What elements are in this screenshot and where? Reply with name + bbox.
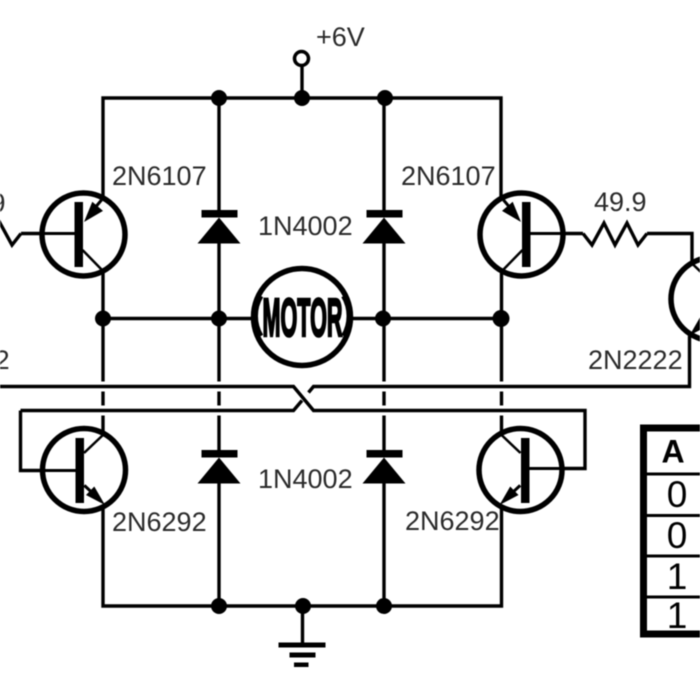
svg-text:1: 1 xyxy=(667,595,688,636)
wire left diode column between rails xyxy=(217,319,220,452)
wire bottom rail with side risers xyxy=(103,507,502,606)
wire Q1 collector drop xyxy=(101,271,104,319)
diode D3 1N4002 bottom-left xyxy=(198,450,241,606)
wire left resistor to Q1 base xyxy=(21,232,44,235)
transistor Q1 2N6107 top-left xyxy=(42,193,125,276)
transistor Q2 2N6107 top-right xyxy=(480,193,563,276)
wire Q2 collector drop xyxy=(500,271,503,319)
svg-text:49.9: 49.9 xyxy=(594,187,647,217)
node bottom rail ground xyxy=(295,598,311,614)
wire middle rail left xyxy=(103,317,252,320)
+6V terminal xyxy=(295,52,309,66)
wire left column between rails xyxy=(101,319,104,435)
wire right diode column between rails xyxy=(382,319,385,452)
transistor Q5 2N2222 right (cut off at edge) xyxy=(671,258,700,341)
node middle rail left end xyxy=(95,311,111,327)
wire cross upper-right segment xyxy=(309,336,690,393)
svg-text:2N2222: 2N2222 xyxy=(0,345,10,375)
diode D1 1N4002 top-left xyxy=(198,98,241,319)
wire base Q2 to resistor xyxy=(563,232,583,235)
resistor 49.9 left (cut off at edge) xyxy=(0,223,21,245)
svg-text:2N6292: 2N6292 xyxy=(112,507,207,537)
wire resistor to Q5 collector xyxy=(647,234,692,264)
svg-text:2N6107: 2N6107 xyxy=(401,161,496,191)
wire cross upper-left to lower-right xyxy=(0,387,585,469)
wire cross lower-left to upper-right xyxy=(21,401,303,411)
node bottom rail left diode xyxy=(211,598,227,614)
wire +6V stem xyxy=(300,66,303,99)
node middle rail left diode xyxy=(211,311,227,327)
motor M1 xyxy=(254,269,351,366)
svg-text:1N4002: 1N4002 xyxy=(258,464,353,494)
svg-text:2N6107: 2N6107 xyxy=(112,161,207,191)
svg-text:0: 0 xyxy=(667,515,688,556)
node middle rail right diode xyxy=(375,311,391,327)
transistor Q3 2N6292 bottom-left xyxy=(43,429,126,512)
svg-text:0: 0 xyxy=(667,474,688,515)
svg-text:49.9: 49.9 xyxy=(0,188,6,218)
wire top rail with side drops xyxy=(103,98,501,199)
svg-text:1N4002: 1N4002 xyxy=(258,211,353,241)
node bottom rail right diode xyxy=(376,598,392,614)
svg-text:A: A xyxy=(661,434,684,470)
wire right column between rails xyxy=(500,319,503,435)
wire Q3 base hook xyxy=(21,411,45,471)
node top rail junction right diode column xyxy=(377,90,393,106)
node middle rail right end xyxy=(493,310,510,327)
transistor Q4 2N6292 bottom-right xyxy=(479,429,562,512)
svg-text:2N2222: 2N2222 xyxy=(588,345,683,375)
svg-text:MOTOR: MOTOR xyxy=(263,288,343,348)
wire middle rail right xyxy=(352,317,501,320)
resistor 49.9 right xyxy=(583,223,647,245)
node top rail junction +6V xyxy=(294,90,310,106)
svg-text:+6V: +6V xyxy=(316,22,365,52)
node top rail junction left diode column xyxy=(211,90,227,106)
svg-text:2N6292: 2N6292 xyxy=(405,506,500,536)
diode D2 1N4002 top-right xyxy=(363,98,406,319)
ground xyxy=(279,606,326,667)
truth table xyxy=(643,428,700,636)
diode D4 1N4002 bottom-right xyxy=(363,450,406,606)
svg-text:1: 1 xyxy=(667,556,688,597)
